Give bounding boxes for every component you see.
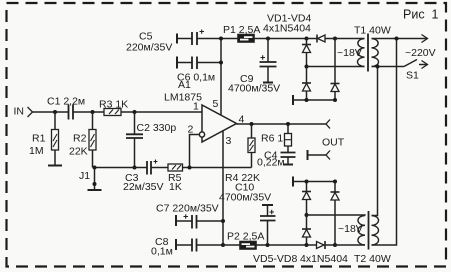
transformer T1 — [354, 25, 391, 72]
wire pin 5 rail — [220, 39, 222, 116]
resistor R5 — [168, 164, 183, 193]
wire — [223, 244, 240, 246]
wire — [183, 167, 252, 169]
node — [376, 65, 380, 69]
svg-text:C6 0,1м: C6 0,1м — [177, 72, 215, 84]
node — [266, 37, 270, 41]
terminal IN — [14, 106, 33, 118]
node — [219, 37, 223, 41]
node — [219, 61, 223, 65]
diode VD4 — [331, 39, 340, 101]
capacitor C5 — [126, 30, 238, 54]
svg-text:P2 2,5A: P2 2,5A — [227, 231, 264, 243]
wire to T2 primary bottom — [372, 39, 397, 246]
op-amp U1 LM1875 — [164, 79, 237, 142]
node — [305, 213, 309, 217]
svg-text:R2: R2 — [73, 133, 87, 145]
node — [395, 37, 399, 41]
diode VD7 — [331, 182, 340, 246]
capacitor C10 — [219, 182, 276, 246]
svg-text:C1 2,2м: C1 2,2м — [47, 96, 85, 108]
wire — [73, 111, 104, 113]
node — [221, 243, 225, 247]
svg-text:C7 220м/35V: C7 220м/35V — [156, 203, 219, 215]
svg-text:3: 3 — [226, 135, 232, 147]
diode VD1 — [307, 35, 336, 43]
wire pin 3 rail — [222, 131, 224, 246]
node — [305, 37, 309, 41]
capacitor C6 — [177, 57, 221, 84]
svg-text:2: 2 — [188, 124, 194, 136]
ground — [48, 165, 62, 167]
svg-text:R6 1: R6 1 — [261, 133, 283, 145]
svg-text:0,1м: 0,1м — [151, 246, 173, 258]
capacitor C7 — [156, 203, 223, 229]
capacitor C2 330p — [126, 112, 176, 168]
node — [305, 180, 309, 184]
node — [133, 110, 137, 114]
wire — [254, 38, 307, 40]
wire mains top — [372, 38, 428, 40]
wire AC2 — [307, 66, 365, 68]
wire — [293, 99, 335, 101]
node — [333, 98, 337, 102]
capacitor C9 — [228, 39, 280, 95]
node — [221, 219, 225, 223]
svg-text:~18V: ~18V — [338, 223, 363, 235]
capacitor C8 — [151, 236, 223, 258]
svg-text:1M: 1M — [29, 145, 44, 157]
wire — [33, 111, 69, 113]
resistor R6 — [261, 124, 292, 153]
svg-text:T1 40W: T1 40W — [354, 25, 391, 37]
svg-text:22м/35V: 22м/35V — [123, 181, 164, 193]
resistor R2 — [69, 112, 96, 168]
node — [133, 166, 137, 170]
capacitor C4 — [257, 150, 296, 169]
svg-text:220м/35V: 220м/35V — [126, 42, 172, 54]
diode VD3 — [302, 67, 311, 101]
wire — [121, 111, 202, 113]
wire — [95, 167, 148, 169]
svg-text:R3 1K: R3 1K — [99, 99, 128, 111]
chassis tick — [292, 177, 294, 187]
wire — [256, 244, 307, 246]
capacitor C3 — [123, 160, 164, 194]
diode VD5 — [302, 182, 311, 216]
resistor R3 — [99, 99, 128, 116]
svg-text:4x1N5404: 4x1N5404 — [263, 23, 311, 35]
wire — [293, 181, 335, 183]
node — [286, 122, 290, 126]
fuse P2 — [227, 231, 264, 250]
terminal OUT ground — [308, 150, 331, 160]
svg-text:VD5-VD8: VD5-VD8 — [253, 253, 298, 265]
svg-text:OUT: OUT — [322, 137, 345, 149]
svg-text:5: 5 — [213, 98, 219, 110]
svg-text:0,22м: 0,22м — [257, 157, 285, 169]
node — [305, 65, 309, 69]
svg-text:22K: 22K — [69, 146, 88, 158]
capacitor C1 2.2u — [47, 96, 85, 120]
svg-text:S1: S1 — [406, 70, 419, 82]
node — [333, 180, 337, 184]
resistor R4 — [225, 124, 260, 184]
svg-text:~220V: ~220V — [405, 47, 436, 59]
fuse P1 — [223, 24, 260, 42]
node — [333, 243, 337, 247]
rectifier bridge VD5-VD8 — [253, 253, 348, 265]
wire — [372, 66, 405, 68]
node — [91, 110, 95, 114]
switch S1 — [404, 60, 428, 82]
svg-text:4x1N5404: 4x1N5404 — [300, 253, 348, 265]
node — [305, 98, 309, 102]
diode VD8 — [307, 241, 336, 249]
transformer T2 — [354, 211, 391, 265]
node — [53, 110, 57, 114]
wire AC — [307, 214, 366, 217]
node — [188, 166, 192, 170]
wire — [151, 167, 168, 169]
wire to T2 primary top — [372, 67, 378, 216]
node — [266, 243, 270, 247]
ground — [88, 189, 102, 191]
node J1 — [79, 166, 97, 191]
svg-text:C2 330p: C2 330p — [137, 122, 177, 134]
wire — [335, 244, 365, 246]
node — [305, 243, 309, 247]
svg-text:P1 2,5A: P1 2,5A — [223, 24, 260, 36]
wire output — [237, 123, 327, 125]
svg-text:IN: IN — [14, 106, 25, 118]
wire to pin 2 — [190, 135, 200, 168]
node — [333, 37, 337, 41]
svg-text:R1: R1 — [32, 133, 46, 145]
rectifier bridge VD1-VD4 — [263, 13, 312, 35]
svg-text:Рис 1: Рис 1 — [403, 8, 439, 22]
svg-text:1: 1 — [193, 101, 199, 113]
resistor R1 — [29, 112, 59, 166]
terminal OUT — [322, 120, 345, 149]
diode VD2 — [302, 39, 311, 67]
svg-text:T2 40W: T2 40W — [354, 253, 391, 265]
diode VD6 — [302, 215, 311, 245]
chassis tick — [292, 95, 294, 105]
svg-text:~18V: ~18V — [337, 47, 362, 59]
svg-text:4700м/35V: 4700м/35V — [219, 192, 271, 204]
svg-text:4700м/35V: 4700м/35V — [228, 83, 280, 95]
svg-text:1K: 1K — [169, 181, 182, 193]
node — [250, 122, 254, 126]
svg-text:J1: J1 — [79, 170, 90, 182]
wire — [335, 38, 365, 40]
arrow ~220V — [405, 35, 436, 60]
